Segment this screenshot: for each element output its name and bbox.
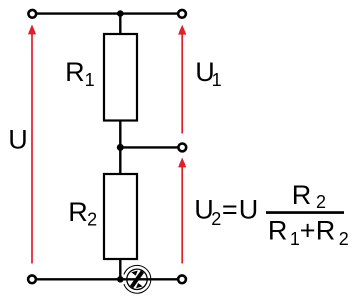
svg-text:2: 2 [316,192,326,212]
svg-text:2: 2 [211,209,221,229]
wire top horizontal [32,12,182,14]
resistor R2 [104,174,137,259]
arrow U (left, pointing up) [28,25,36,264]
node junction middle [117,144,124,151]
formula fraction bar [266,211,344,214]
svg-text:+: + [300,215,316,245]
svg-text:=: = [222,195,238,225]
arrow U1 (right upper, pointing up) [178,25,186,134]
svg-text:U: U [8,125,28,155]
svg-text:1: 1 [212,70,222,90]
svg-text:2: 2 [339,229,349,249]
arrow U2 (right lower, pointing up) [178,158,186,264]
svg-text:U: U [239,195,259,225]
terminal top-right [178,10,186,18]
terminal middle-right [178,144,186,152]
watermark logo circle [124,265,151,293]
wire R1 bottom to middle junction [119,121,121,148]
svg-text:R: R [268,215,288,245]
svg-text:R: R [65,57,85,87]
node junction top [117,10,124,17]
svg-text:R: R [68,197,88,227]
svg-text:1: 1 [290,229,300,249]
wire middle junction to R2 [119,147,121,175]
svg-text:R: R [292,180,312,210]
resistor R1 [104,34,137,121]
formula U2 = U R2/(R1+R2) [194,180,349,249]
wire middle tap horizontal [120,146,182,148]
svg-text:1: 1 [85,70,95,90]
wire top junction to R1 [119,14,121,35]
svg-text:R: R [316,215,336,245]
terminal bottom-left [28,275,36,283]
node junction bottom [117,276,124,283]
watermark bolt [130,270,144,288]
wire R2 bottom to bottom rail [119,259,121,279]
terminal top-left [28,10,36,18]
terminal bottom-right [178,275,186,283]
wire bottom horizontal [32,278,182,280]
svg-text:2: 2 [87,210,97,230]
